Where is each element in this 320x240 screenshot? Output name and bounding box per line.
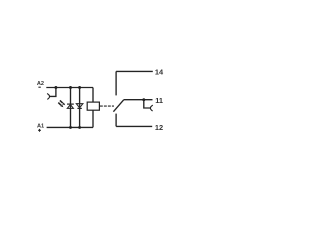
wire LED branch vertical	[70, 88, 72, 128]
LED D1 triangle	[67, 105, 73, 109]
terminal label 12	[155, 123, 163, 132]
minus sign at A2	[38, 86, 40, 88]
node junction bottom diode branch	[78, 126, 81, 129]
wire coil branch lower	[92, 110, 94, 127]
terminal label 14	[155, 68, 164, 77]
LED arrow 2	[58, 103, 63, 108]
node junction top diode branch	[78, 86, 81, 89]
svg-text:A2: A2	[37, 81, 44, 87]
wire A2 clamp stub	[50, 88, 56, 97]
wire 11 clamp stub	[144, 100, 150, 108]
wire A1 horizontal	[47, 126, 93, 128]
diode D2 triangle	[76, 104, 83, 108]
wire 14 horizontal	[116, 70, 153, 72]
svg-text:A1: A1	[37, 123, 44, 129]
relay coil K1	[87, 102, 99, 110]
clamp symbol A2 terminal	[47, 94, 49, 100]
terminal label A2	[37, 81, 44, 87]
clamp symbol 11 terminal	[150, 105, 152, 111]
terminal label 11	[155, 96, 163, 105]
contact moving arm	[113, 100, 123, 112]
svg-text:11: 11	[155, 96, 163, 105]
node junction top LED branch	[69, 86, 72, 89]
terminal label A1	[37, 123, 44, 129]
LED D1 cathode bar	[67, 103, 74, 105]
wire contact leg upper (to 14)	[115, 71, 117, 95]
wire contact leg lower (to 12)	[115, 114, 117, 127]
svg-text:14: 14	[155, 68, 164, 77]
wire coil branch upper	[92, 88, 94, 103]
LED arrow 1	[60, 100, 65, 105]
node junction 11 clamp	[142, 98, 145, 101]
node junction A2/clamp	[54, 86, 57, 89]
wire diode branch vertical	[79, 88, 81, 128]
diode D2 cathode bar	[77, 107, 81, 109]
wire common to 11	[124, 99, 153, 101]
node junction bottom LED branch	[69, 126, 72, 129]
wire A2 horizontal	[46, 87, 93, 89]
plus sign at A1	[38, 129, 41, 132]
wire 12 horizontal	[116, 125, 152, 127]
actuator dashed link	[100, 105, 114, 107]
svg-text:12: 12	[155, 123, 163, 132]
